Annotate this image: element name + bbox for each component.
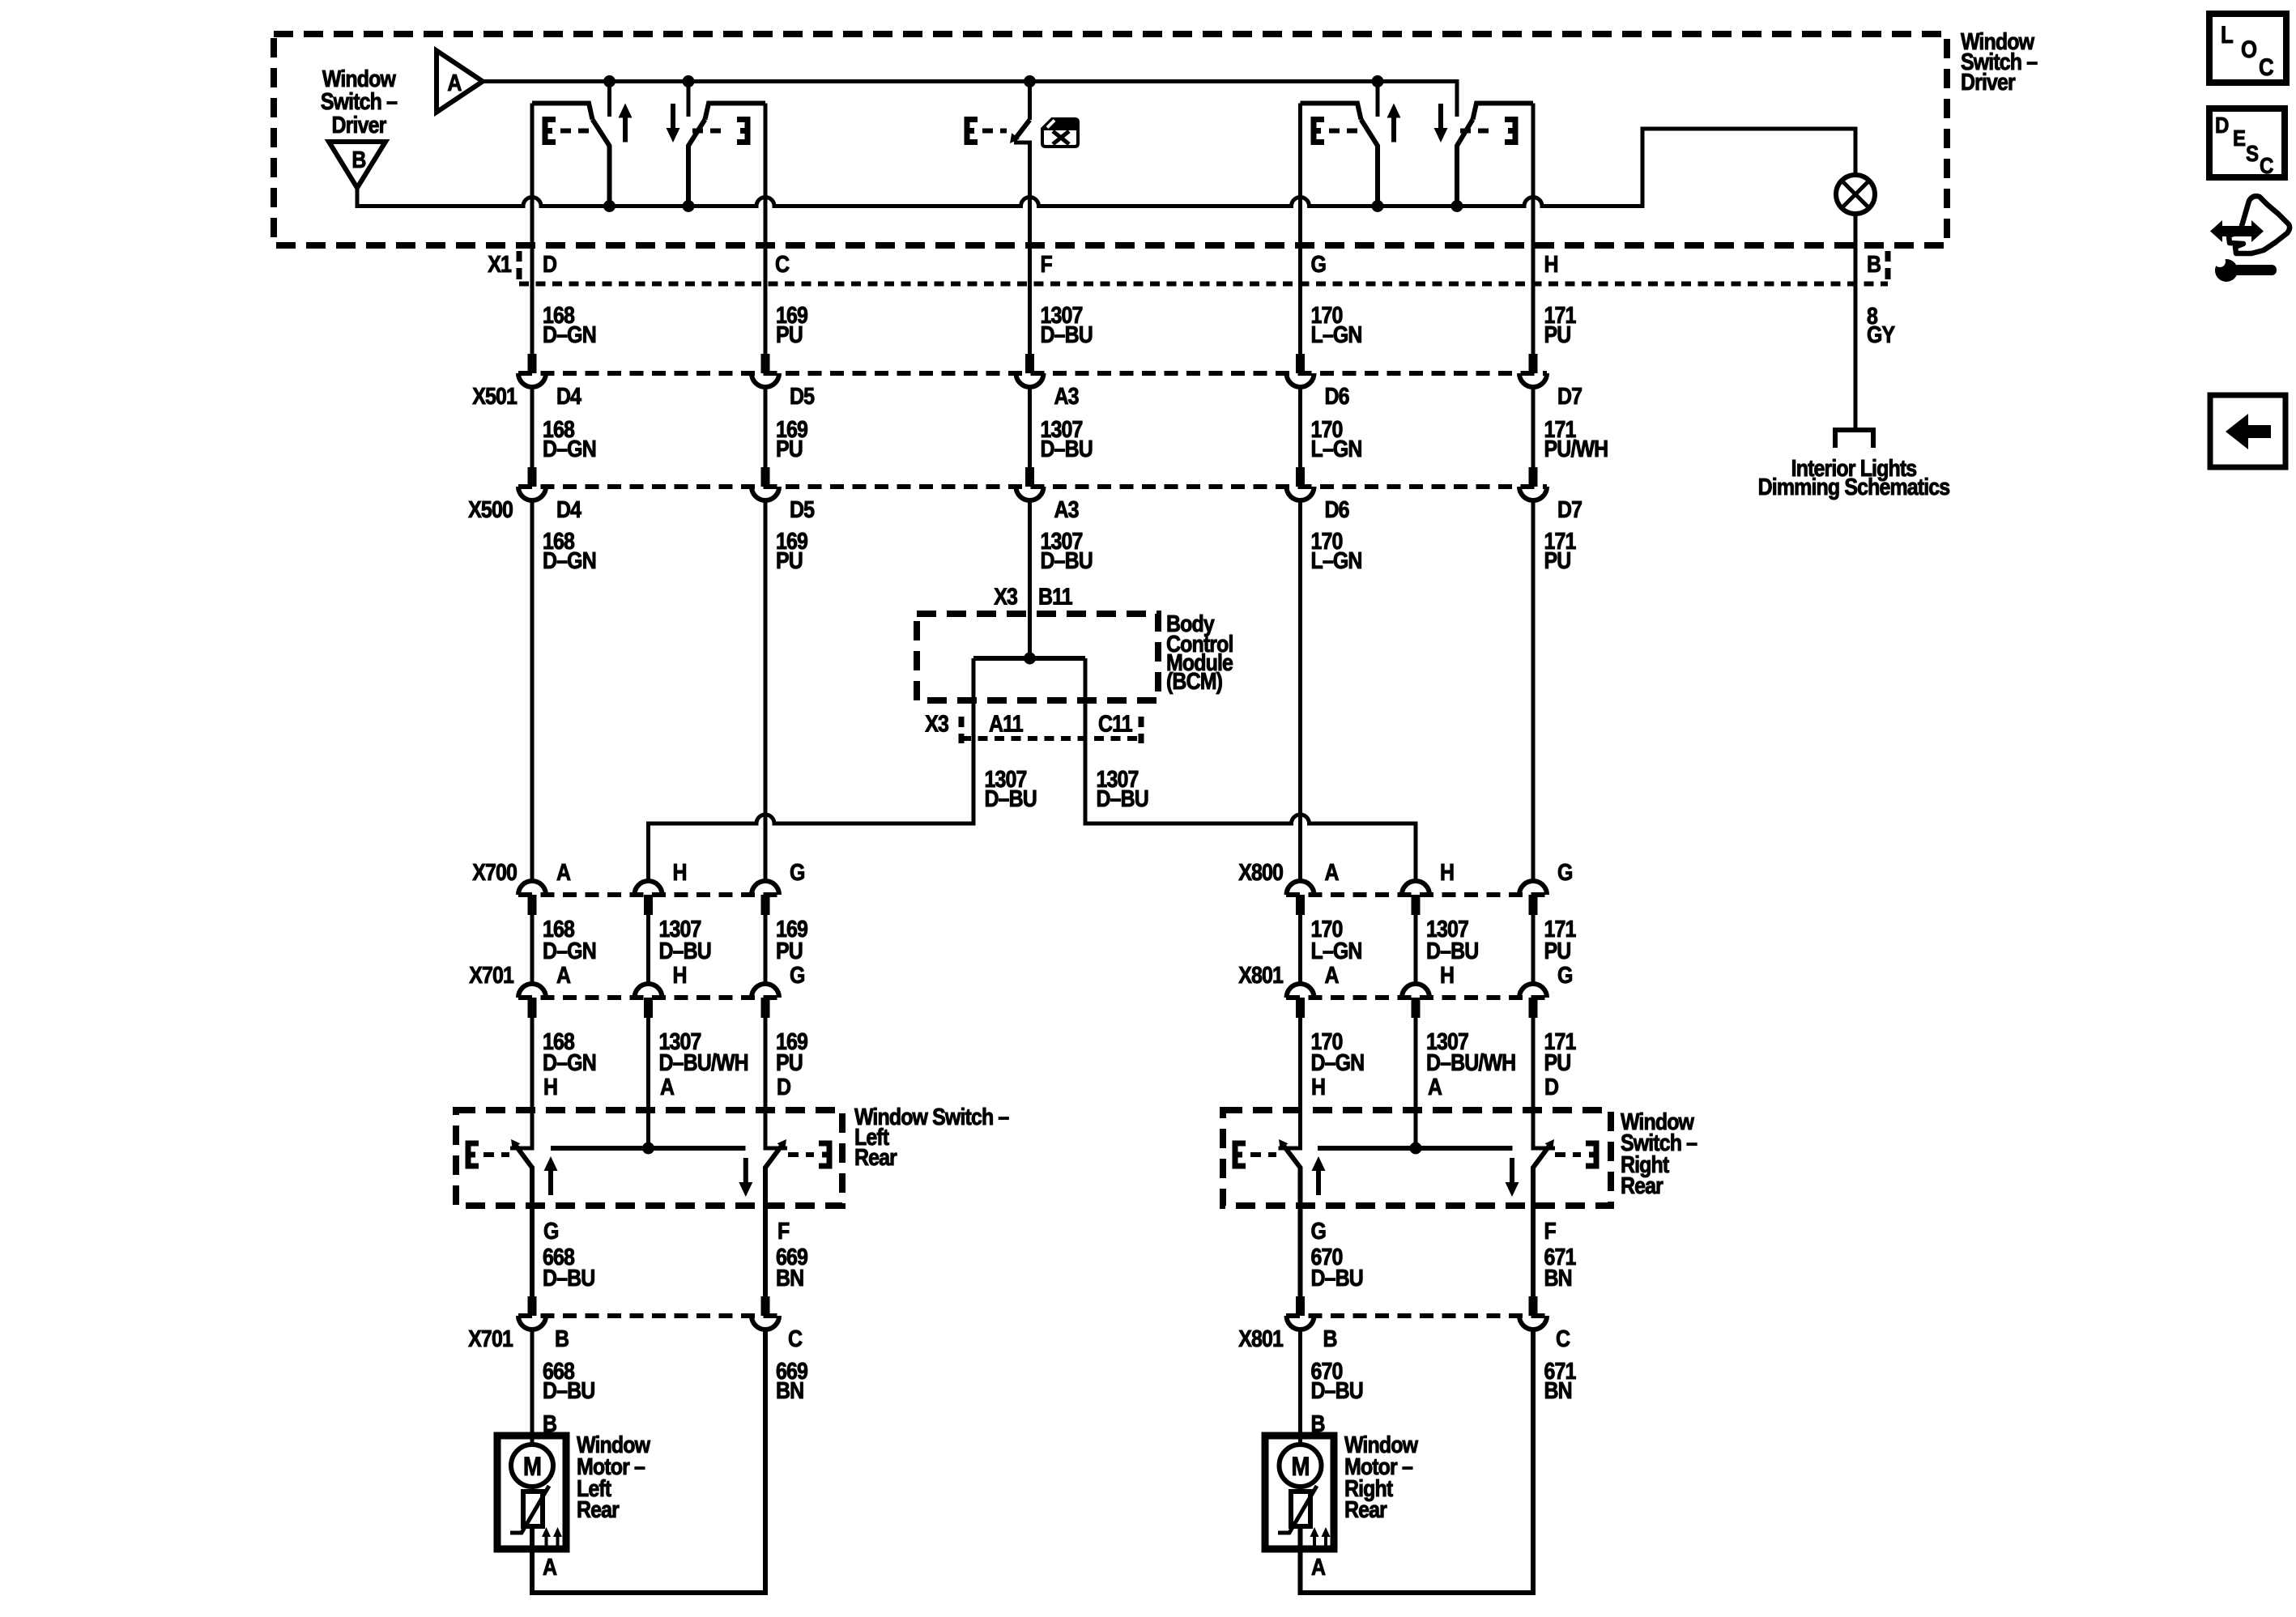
arrow up bbox=[619, 104, 633, 143]
connector X801 pin B bbox=[1287, 1296, 1314, 1330]
svg-text:C: C bbox=[1556, 1326, 1570, 1351]
svg-text:X801: X801 bbox=[1238, 1326, 1284, 1351]
connector X800 pin A bbox=[1287, 881, 1314, 915]
svg-text:F: F bbox=[1544, 1218, 1557, 1244]
svg-text:X3: X3 bbox=[994, 584, 1018, 610]
svg-text:A3: A3 bbox=[1054, 496, 1080, 522]
junction dot bbox=[603, 200, 616, 212]
svg-text:D–GN: D–GN bbox=[1311, 1049, 1365, 1075]
window motor right rear box bbox=[1265, 1436, 1334, 1549]
svg-text:A: A bbox=[1324, 962, 1339, 988]
svg-text:M: M bbox=[523, 1453, 541, 1481]
svg-text:A: A bbox=[556, 859, 571, 885]
svg-text:C: C bbox=[2259, 53, 2273, 80]
svg-text:D–BU: D–BU bbox=[1311, 1265, 1363, 1291]
wire BCM A11 leg bbox=[649, 658, 974, 881]
svg-text:D: D bbox=[2215, 112, 2229, 138]
svg-text:D: D bbox=[1544, 1074, 1559, 1100]
window switch driver dashed box bbox=[274, 34, 1947, 245]
svg-text:X500: X500 bbox=[468, 496, 513, 522]
arrow down bbox=[739, 1158, 752, 1197]
connector X700 dashed line bbox=[518, 892, 778, 897]
junction dot bbox=[1024, 75, 1036, 87]
svg-text:D–BU: D–BU bbox=[1040, 547, 1092, 573]
motor-right M circle bbox=[1280, 1445, 1322, 1487]
connector X500 pin D7 bbox=[1519, 467, 1547, 500]
svg-text:PU: PU bbox=[776, 436, 803, 462]
svg-text:D–BU: D–BU bbox=[543, 1377, 594, 1403]
svg-text:L: L bbox=[2221, 21, 2234, 48]
svg-text:D–GN: D–GN bbox=[543, 938, 596, 964]
icon hand double-arrow bbox=[2210, 220, 2264, 242]
svg-text:X701: X701 bbox=[469, 962, 514, 988]
svg-text:H: H bbox=[1544, 251, 1558, 277]
icon DESC box bbox=[2209, 109, 2285, 177]
svg-text:H: H bbox=[1311, 1074, 1325, 1100]
offpage connector interior lights bbox=[1835, 430, 1873, 448]
svg-text:B: B bbox=[1867, 251, 1881, 277]
junction dot bbox=[1372, 200, 1384, 212]
switch driver right-up bracket bbox=[1314, 120, 1324, 143]
wire lamp down to X1-B bbox=[1854, 214, 1858, 430]
svg-text:B: B bbox=[1323, 1326, 1337, 1351]
svg-text:G: G bbox=[1557, 962, 1573, 988]
svg-text:A: A bbox=[1324, 859, 1339, 885]
window switch left rear dashed box bbox=[456, 1110, 842, 1206]
connector X3 dotted line bbox=[961, 736, 1139, 741]
connector X501 pin A3 bbox=[1016, 354, 1044, 387]
connector X801 dashed line bbox=[1286, 995, 1547, 1000]
switch driver right-down bracket bbox=[1460, 129, 1493, 134]
svg-text:PU: PU bbox=[1544, 321, 1571, 347]
connector X701 pin B bbox=[518, 1296, 546, 1330]
connector X700 pin H bbox=[635, 881, 662, 915]
junction dot bbox=[683, 75, 695, 87]
wire 170 col4 X1 to switch bbox=[1279, 104, 1301, 1149]
connector X1 bracket right bbox=[1885, 251, 1891, 279]
connector X801 pin C bbox=[1519, 1296, 1547, 1330]
svg-text:D–GN: D–GN bbox=[543, 547, 596, 573]
svg-text:D–BU: D–BU bbox=[1040, 436, 1092, 462]
switch driver right-up frame bbox=[1301, 104, 1361, 120]
switch lockout bracket bbox=[967, 120, 978, 143]
svg-text:B: B bbox=[555, 1326, 569, 1351]
window lockout icon bbox=[1042, 119, 1078, 147]
svg-text:X700: X700 bbox=[472, 859, 517, 885]
triangle terminal B bbox=[329, 142, 386, 188]
svg-text:B11: B11 bbox=[1038, 584, 1073, 610]
switch driver left-up fixed contact bbox=[607, 82, 611, 117]
svg-text:G: G bbox=[790, 962, 805, 988]
wire 169 col2 X1 to switch bbox=[765, 104, 787, 1149]
connector X500 pin A3 bbox=[1016, 467, 1044, 500]
svg-text:H: H bbox=[673, 962, 687, 988]
svg-text:D4: D4 bbox=[556, 496, 581, 522]
svg-text:M: M bbox=[1292, 1453, 1310, 1481]
motor-left M circle bbox=[511, 1445, 553, 1487]
svg-text:H: H bbox=[543, 1074, 557, 1100]
svg-text:PU: PU bbox=[776, 321, 803, 347]
connector X501 pin D7 bbox=[1519, 354, 1547, 387]
connector X701 lower dashed line bbox=[518, 1313, 779, 1318]
switch lockout wire upper bbox=[1028, 82, 1032, 121]
wire top bus from A bbox=[483, 82, 1457, 117]
wire 171 col5 X1 to switch bbox=[1533, 104, 1555, 1149]
svg-text:H: H bbox=[673, 859, 687, 885]
svg-text:D6: D6 bbox=[1324, 383, 1349, 409]
connector X800 pin G bbox=[1519, 881, 1547, 915]
svg-text:E: E bbox=[2233, 125, 2246, 151]
svg-text:A: A bbox=[1428, 1074, 1442, 1100]
switch right-rear bracket left bbox=[1235, 1143, 1246, 1166]
svg-text:PU: PU bbox=[776, 547, 803, 573]
svg-text:BN: BN bbox=[1544, 1265, 1572, 1291]
svg-text:F: F bbox=[1040, 251, 1052, 277]
icon hand outline bbox=[2229, 196, 2290, 253]
arrow up bbox=[1312, 1156, 1326, 1195]
svg-text:F: F bbox=[777, 1218, 790, 1244]
svg-text:PU: PU bbox=[1544, 1049, 1571, 1075]
svg-text:X801: X801 bbox=[1238, 962, 1284, 988]
svg-text:L–GN: L–GN bbox=[1311, 436, 1362, 462]
connector X701 pin G bbox=[752, 984, 779, 1018]
wire 1307 col3 lockout to BCM bbox=[1014, 143, 1030, 658]
switch driver right-up blade bbox=[1361, 120, 1378, 206]
connector X801 lower dashed line bbox=[1286, 1313, 1547, 1318]
switch right-rear up blade bbox=[1281, 1143, 1301, 1296]
arrow down bbox=[1506, 1158, 1519, 1197]
svg-text:BN: BN bbox=[776, 1377, 803, 1403]
svg-text:Switch –: Switch – bbox=[321, 88, 398, 114]
svg-text:D7: D7 bbox=[1557, 496, 1582, 522]
svg-text:D–BU: D–BU bbox=[1096, 785, 1148, 811]
switch driver right-down frame bbox=[1473, 104, 1534, 120]
connector X501 pin D6 bbox=[1287, 354, 1314, 387]
connector X801 pin H bbox=[1402, 984, 1429, 1018]
svg-text:S: S bbox=[2246, 140, 2259, 166]
svg-text:D–BU: D–BU bbox=[658, 938, 710, 964]
svg-text:L–GN: L–GN bbox=[1311, 547, 1362, 573]
connector X701 pin H bbox=[635, 984, 662, 1018]
junction dot bbox=[683, 200, 695, 212]
svg-text:X800: X800 bbox=[1238, 859, 1283, 885]
svg-text:D5: D5 bbox=[790, 496, 815, 522]
motor-left breaker bbox=[530, 1487, 535, 1491]
junction dot bbox=[1024, 653, 1036, 665]
svg-text:D–BU: D–BU bbox=[1426, 938, 1478, 964]
svg-text:D–BU: D–BU bbox=[985, 785, 1037, 811]
switch lockout blade bbox=[1015, 120, 1030, 139]
switch driver left-down fixed contact bbox=[687, 82, 691, 117]
svg-text:Dimming Schematics: Dimming Schematics bbox=[1758, 474, 1950, 500]
switch driver left-up bracket bbox=[545, 120, 556, 143]
svg-text:L–GN: L–GN bbox=[1311, 938, 1362, 964]
body control module dashed box bbox=[917, 614, 1158, 700]
svg-text:A: A bbox=[543, 1554, 557, 1580]
svg-text:D–GN: D–GN bbox=[543, 436, 596, 462]
icon wrench bbox=[2215, 259, 2238, 282]
switch right-rear common rail bbox=[1318, 1146, 1513, 1151]
svg-text:G: G bbox=[1311, 251, 1327, 277]
svg-text:D6: D6 bbox=[1324, 496, 1349, 522]
connector X1 dotted line bbox=[519, 282, 1888, 287]
arrow up bbox=[1387, 104, 1401, 143]
switch left-rear up blade bbox=[513, 1143, 532, 1296]
svg-text:PU: PU bbox=[1544, 938, 1571, 964]
svg-text:Rear: Rear bbox=[577, 1496, 620, 1522]
switch right-rear down blade bbox=[1533, 1143, 1552, 1296]
connector X500 dashed line bbox=[518, 484, 1547, 489]
svg-text:H: H bbox=[1440, 859, 1454, 885]
connector X501 pin D4 bbox=[518, 354, 546, 387]
wire 1307 to right switch bbox=[1414, 915, 1418, 1148]
svg-text:D–BU: D–BU bbox=[1311, 1377, 1363, 1403]
svg-text:D: D bbox=[543, 251, 557, 277]
svg-text:L–GN: L–GN bbox=[1311, 321, 1362, 347]
svg-text:PU: PU bbox=[776, 938, 803, 964]
switch driver left-down blade bbox=[688, 120, 705, 206]
connector X800 dashed line bbox=[1286, 892, 1547, 897]
svg-text:Rear: Rear bbox=[1621, 1172, 1663, 1198]
svg-text:BN: BN bbox=[776, 1265, 803, 1291]
connector X500 pin D6 bbox=[1287, 467, 1314, 500]
lamp interior dimming bbox=[1836, 175, 1875, 214]
svg-text:H: H bbox=[1440, 962, 1454, 988]
switch driver left-up blade bbox=[593, 120, 610, 206]
BCM internal bar bbox=[973, 656, 1085, 661]
svg-text:D–BU/WH: D–BU/WH bbox=[1426, 1049, 1515, 1075]
wire 1307 to left switch bbox=[646, 915, 650, 1148]
triangle terminal A bbox=[437, 51, 483, 113]
switch driver right-up fixed contact bbox=[1376, 82, 1380, 117]
icon back arrow box bbox=[2210, 395, 2285, 467]
svg-text:PU: PU bbox=[1544, 547, 1571, 573]
icon LOC box bbox=[2209, 14, 2286, 83]
motor-right breaker bbox=[1298, 1487, 1302, 1491]
svg-text:D5: D5 bbox=[790, 383, 815, 409]
connector X1 bracket left bbox=[517, 251, 522, 279]
svg-text:A11: A11 bbox=[989, 711, 1024, 737]
svg-text:X3: X3 bbox=[925, 711, 949, 737]
svg-text:D–GN: D–GN bbox=[543, 1049, 596, 1075]
svg-text:Rear: Rear bbox=[854, 1144, 897, 1170]
svg-text:D–BU: D–BU bbox=[1040, 321, 1092, 347]
junction dot bbox=[1410, 1143, 1422, 1155]
connector X501 pin D5 bbox=[752, 354, 779, 387]
svg-text:BN: BN bbox=[1544, 1377, 1572, 1403]
connector X500 pin D5 bbox=[752, 467, 779, 500]
svg-text:G: G bbox=[1557, 859, 1573, 885]
switch driver left-up frame bbox=[532, 104, 593, 120]
svg-text:D–BU: D–BU bbox=[543, 1265, 594, 1291]
junction dot bbox=[603, 75, 616, 87]
connector X700 pin A bbox=[518, 881, 546, 915]
svg-text:D4: D4 bbox=[556, 383, 581, 409]
window switch right rear dashed box bbox=[1223, 1110, 1611, 1206]
connector X500 pin D4 bbox=[518, 467, 546, 500]
connector X3 bracket left bbox=[959, 717, 965, 743]
wire motor-left feed bbox=[530, 1330, 535, 1445]
connector X701 dashed line bbox=[518, 995, 778, 1000]
svg-text:C: C bbox=[788, 1326, 803, 1351]
arrow down bbox=[1434, 104, 1448, 143]
connector X800 pin H bbox=[1402, 881, 1429, 915]
arrow up bbox=[544, 1156, 558, 1195]
svg-text:B: B bbox=[351, 147, 366, 172]
svg-text:X701: X701 bbox=[468, 1326, 513, 1351]
wire bottom bus from B bbox=[357, 129, 1855, 206]
svg-text:O: O bbox=[2241, 36, 2256, 62]
svg-text:A: A bbox=[556, 962, 571, 988]
connector X701 pin C bbox=[752, 1296, 779, 1330]
connector X801 pin A bbox=[1287, 984, 1314, 1018]
switch driver right-down blade bbox=[1457, 120, 1473, 206]
wire 168 col1 X1 to switch bbox=[510, 104, 532, 1149]
svg-text:D7: D7 bbox=[1557, 383, 1582, 409]
connector X501 dashed line bbox=[518, 371, 1547, 376]
svg-text:D: D bbox=[777, 1074, 791, 1100]
svg-text:G: G bbox=[1311, 1218, 1327, 1244]
switch driver left-down bracket bbox=[692, 129, 725, 134]
switch left-rear down blade bbox=[765, 1143, 784, 1296]
junction dot bbox=[1372, 75, 1384, 87]
svg-text:(BCM): (BCM) bbox=[1166, 668, 1222, 694]
svg-text:C11: C11 bbox=[1098, 711, 1133, 737]
svg-text:Driver: Driver bbox=[332, 112, 387, 138]
svg-text:X501: X501 bbox=[472, 383, 518, 409]
wire BCM C11 leg bbox=[1085, 658, 1416, 881]
svg-text:G: G bbox=[790, 859, 805, 885]
junction dot bbox=[642, 1143, 654, 1155]
connector X3 bracket right bbox=[1139, 717, 1144, 743]
switch left-rear bracket right bbox=[788, 1152, 814, 1157]
switch driver left-down frame bbox=[705, 104, 766, 120]
svg-text:C: C bbox=[775, 251, 790, 277]
connector X801 pin G bbox=[1519, 984, 1547, 1018]
window motor left rear box bbox=[497, 1436, 566, 1549]
wire motor-right return loop bbox=[1301, 1330, 1534, 1593]
svg-text:Driver: Driver bbox=[1961, 69, 2016, 95]
connector X700 pin G bbox=[752, 881, 779, 915]
svg-text:X1: X1 bbox=[488, 251, 512, 277]
svg-text:A: A bbox=[447, 70, 462, 96]
svg-text:D–GN: D–GN bbox=[543, 321, 596, 347]
svg-text:PU/WH: PU/WH bbox=[1544, 436, 1608, 462]
svg-text:G: G bbox=[543, 1218, 559, 1244]
svg-text:A3: A3 bbox=[1054, 383, 1080, 409]
switch left-rear bracket left bbox=[468, 1143, 479, 1166]
svg-text:A: A bbox=[1311, 1554, 1326, 1580]
svg-text:Rear: Rear bbox=[1344, 1496, 1387, 1522]
switch left-rear common rail bbox=[551, 1146, 746, 1151]
svg-text:C: C bbox=[2260, 152, 2274, 178]
arrow down bbox=[667, 104, 680, 143]
svg-text:GY: GY bbox=[1867, 321, 1895, 347]
svg-text:PU: PU bbox=[776, 1049, 803, 1075]
svg-text:A: A bbox=[660, 1074, 675, 1100]
switch right-rear bracket right bbox=[1555, 1152, 1581, 1157]
junction dot bbox=[1451, 200, 1463, 212]
wire motor-right feed bbox=[1298, 1330, 1302, 1445]
connector X701 pin A bbox=[518, 984, 546, 1018]
wire motor-left return loop bbox=[532, 1330, 765, 1593]
svg-text:D–BU/WH: D–BU/WH bbox=[658, 1049, 748, 1075]
